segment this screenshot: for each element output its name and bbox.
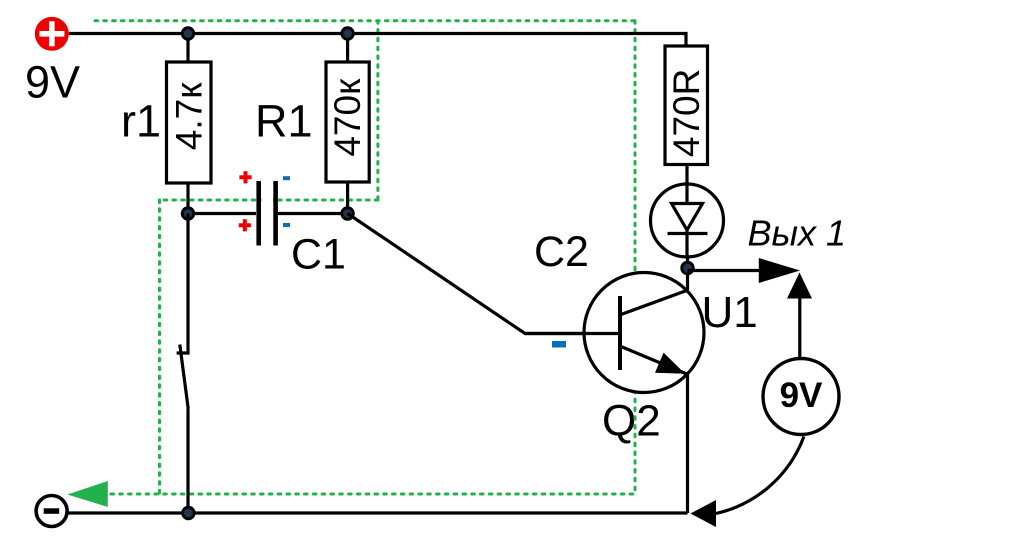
transistor Q2: [525, 273, 704, 393]
svg-text:Вых 1: Вых 1: [748, 213, 847, 254]
wire: output lead: [688, 269, 761, 272]
svg-text:U1: U1: [702, 288, 758, 337]
wire: switch upper lead: [177, 214, 188, 354]
measurement arc arrowhead: [691, 500, 717, 527]
current loop green arrowhead: [67, 481, 107, 507]
node F junction dot collector/output: [682, 262, 694, 274]
output arrowhead: [759, 258, 800, 283]
wire: r1 bottom lead: [186, 183, 189, 214]
svg-text:470R: 470R: [666, 69, 707, 157]
wire: C1 left lead: [188, 212, 256, 215]
node B junction dot top R1: [342, 28, 354, 40]
svg-text:9V: 9V: [780, 376, 823, 415]
current loop dashed mid horizontal: [160, 199, 378, 202]
node C junction dot r1/C1: [182, 208, 194, 220]
svg-text:R1: R1: [255, 96, 313, 147]
svg-text:C2: C2: [534, 228, 589, 276]
svg-text:4.7к: 4.7к: [169, 82, 210, 150]
C1 polarity minus bottom: [283, 223, 290, 227]
measurement arrow up: [787, 273, 812, 358]
wire: r1 top lead: [186, 34, 189, 63]
voltmeter 9V: [763, 359, 839, 435]
current loop dashed vertical at R1 right: [376, 21, 379, 200]
capacitor C1: [256, 181, 278, 246]
wire: collector lead: [686, 257, 689, 290]
svg-text:Q2: Q2: [602, 397, 661, 446]
node D junction dot R1/C1: [342, 208, 354, 220]
resistor 470R: [665, 46, 708, 165]
resistor r1: [167, 62, 212, 183]
wire: C1 right lead: [278, 212, 348, 215]
LED U1: [651, 184, 724, 257]
current loop dashed bottom horizontal: [111, 493, 635, 496]
node A junction dot top r1: [182, 28, 194, 40]
wire: base link diagonal: [348, 214, 620, 334]
resistor R1: [326, 62, 369, 182]
wire: top rail: [69, 34, 686, 47]
negative terminal: [36, 496, 67, 527]
current loop dashed left vertical: [158, 200, 161, 494]
wire: R1 top lead: [346, 34, 349, 63]
svg-text:C1: C1: [291, 231, 346, 279]
wire: 470R bottom lead: [685, 165, 688, 185]
current loop dashed right vertical: [634, 21, 637, 494]
wire: bottom rail: [69, 511, 688, 514]
measurement arc to ground: [716, 437, 804, 514]
C2 polarity minus: [552, 341, 566, 348]
C1 polarity plus bottom: [239, 219, 251, 231]
node E junction dot bottom: [183, 507, 195, 519]
C1 polarity minus top: [283, 176, 290, 180]
positive terminal: [35, 17, 69, 51]
svg-text:r1: r1: [121, 96, 161, 147]
C1 polarity plus top: [239, 171, 251, 183]
current loop dashed top segment: [95, 19, 637, 22]
wire: emitter lead: [686, 374, 689, 513]
svg-text:9V: 9V: [25, 57, 80, 108]
switch blade: [180, 345, 188, 409]
wire: R1 bottom lead: [346, 182, 349, 214]
svg-text:470к: 470к: [327, 78, 368, 157]
wire: switch lower lead: [186, 409, 189, 514]
